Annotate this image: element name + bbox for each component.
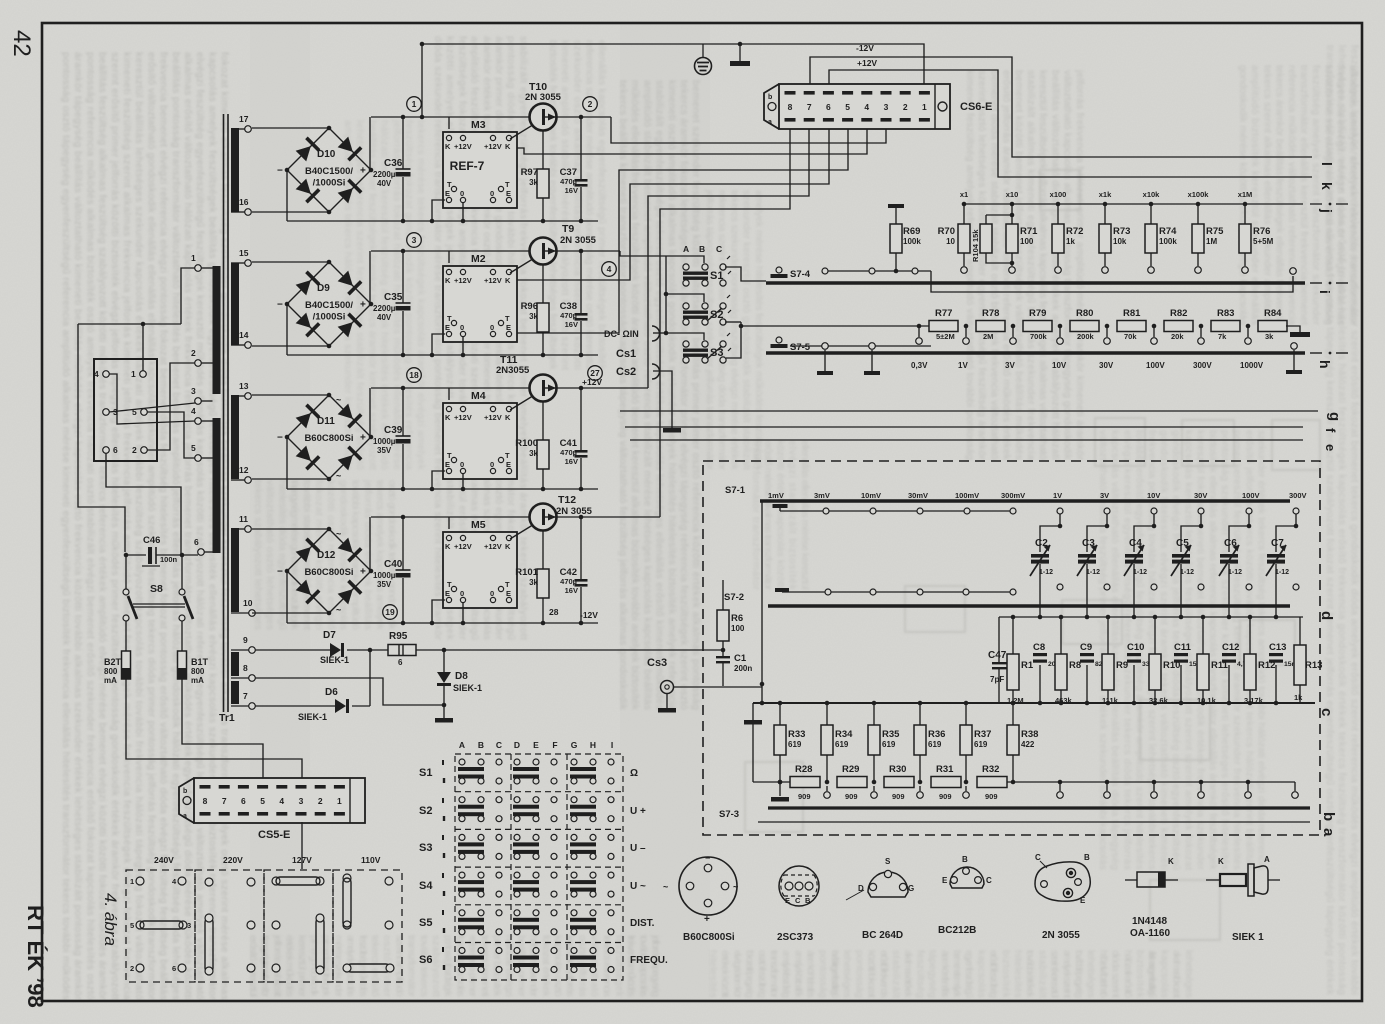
- resistor R100: [515, 438, 549, 469]
- svg-text:l: l: [1319, 162, 1335, 166]
- wire: [779, 508, 781, 511]
- bridge rectifier D11: [277, 393, 373, 482]
- wire: [1153, 326, 1155, 337]
- svg-text:200n: 200n: [734, 664, 752, 673]
- svg-text:K: K: [1218, 857, 1224, 866]
- pinout BC 264D: [846, 857, 914, 941]
- svg-text:5: 5: [260, 796, 265, 806]
- svg-text:100: 100: [731, 624, 745, 633]
- net label d: [1318, 611, 1335, 620]
- svg-text:R77: R77: [935, 308, 952, 319]
- svg-text:k: k: [1319, 182, 1335, 190]
- svg-text:K: K: [445, 142, 451, 151]
- svg-text:I: I: [611, 740, 613, 750]
- voltage regulator module M4: [443, 390, 517, 479]
- svg-text:-12V: -12V: [580, 610, 598, 620]
- svg-text:B: B: [962, 855, 968, 864]
- svg-text:909: 909: [939, 792, 952, 801]
- wire: [556, 116, 611, 118]
- capacitor C1: [716, 653, 752, 673]
- svg-text:T: T: [447, 451, 452, 460]
- svg-text:2: 2: [191, 348, 196, 358]
- wire: [666, 333, 704, 340]
- resistor R32: [977, 764, 1007, 801]
- jack Cs3: [647, 657, 674, 694]
- wire: [722, 580, 724, 610]
- wire: [147, 363, 195, 450]
- resistor R71: [1006, 224, 1038, 253]
- svg-text:~: ~: [336, 529, 341, 539]
- svg-text:0: 0: [460, 460, 464, 469]
- svg-text:470µ: 470µ: [560, 177, 577, 186]
- label 1000V: [1240, 361, 1264, 370]
- svg-text:B: B: [478, 740, 484, 750]
- svg-text:/1000Si: /1000Si: [313, 178, 346, 189]
- svg-text:S7-3: S7-3: [719, 809, 739, 820]
- svg-text:6: 6: [398, 658, 403, 667]
- capacitor C12: [1222, 642, 1251, 668]
- capacitor C37: [560, 167, 588, 195]
- svg-text:S5: S5: [419, 917, 432, 929]
- svg-text:R72: R72: [1066, 226, 1083, 237]
- ground: [888, 204, 904, 208]
- svg-text:13: 13: [239, 381, 249, 391]
- wire: [1087, 514, 1107, 552]
- caption 4. abra: [101, 893, 120, 946]
- svg-text:R29: R29: [842, 764, 859, 775]
- wire: [542, 469, 544, 489]
- wire: [369, 117, 371, 170]
- node 4: [602, 262, 617, 277]
- matrix cell col3 row2: [570, 797, 614, 822]
- wire: [826, 703, 828, 725]
- svg-text:C9: C9: [1080, 642, 1092, 653]
- svg-text:28: 28: [549, 607, 559, 617]
- wire: [999, 616, 1303, 618]
- svg-text:C12: C12: [1222, 642, 1239, 653]
- wire: [287, 354, 598, 356]
- svg-text:T: T: [505, 314, 510, 323]
- svg-text:40V: 40V: [377, 313, 392, 322]
- svg-text:909: 909: [892, 792, 905, 801]
- svg-text:1-12: 1-12: [1275, 569, 1289, 576]
- svg-text:c: c: [1318, 708, 1335, 716]
- net label l: [1319, 162, 1335, 166]
- wire: [829, 70, 1312, 177]
- svg-text:42: 42: [8, 30, 35, 57]
- svg-text:D7: D7: [323, 630, 336, 641]
- node 27: [588, 366, 603, 381]
- svg-text:100mV: 100mV: [955, 491, 979, 500]
- svg-text:+12V: +12V: [582, 377, 602, 387]
- wire: [1247, 326, 1249, 337]
- jack Cs2: [616, 364, 660, 379]
- label S7-3: [719, 809, 739, 820]
- resistor R95: [388, 631, 416, 667]
- label 1V: [958, 361, 968, 370]
- svg-text:4. ábra: 4. ábra: [101, 893, 120, 946]
- ground: [771, 797, 789, 802]
- wire: [1012, 326, 1014, 337]
- svg-text:S7-2: S7-2: [724, 592, 744, 603]
- svg-text:C47: C47: [988, 650, 1007, 661]
- svg-text:10: 10: [243, 598, 253, 608]
- svg-text:15: 15: [239, 248, 249, 258]
- svg-text:19: 19: [385, 607, 395, 617]
- svg-text:SIEK-1: SIEK-1: [320, 655, 349, 665]
- svg-text:mA: mA: [191, 676, 204, 685]
- svg-text:3k: 3k: [529, 312, 538, 321]
- svg-text:1V: 1V: [958, 361, 968, 370]
- svg-text:B40C1500/: B40C1500/: [305, 300, 353, 311]
- label 10mV: [861, 491, 881, 500]
- svg-text:E: E: [533, 740, 539, 750]
- label 30V: [1099, 361, 1114, 370]
- bus rail d: [768, 604, 1290, 608]
- svg-text:100V: 100V: [1242, 491, 1260, 500]
- resistor R37: [960, 725, 991, 755]
- svg-text:B: B: [805, 896, 811, 905]
- svg-text:R6: R6: [731, 613, 743, 624]
- svg-text:S8: S8: [150, 583, 163, 595]
- label ~ top: [336, 529, 341, 539]
- svg-text:E: E: [445, 589, 450, 598]
- svg-text:800: 800: [104, 667, 118, 676]
- terminal pin 9: [243, 635, 255, 653]
- svg-text:G: G: [571, 740, 578, 750]
- svg-text:T: T: [505, 180, 510, 189]
- tap pin 4: [94, 369, 109, 379]
- svg-text:R95: R95: [389, 631, 408, 642]
- resistor R30: [884, 764, 914, 801]
- svg-text:REF-7: REF-7: [450, 159, 485, 173]
- wire: [352, 705, 370, 707]
- fuse B1T: [178, 651, 209, 685]
- svg-text:x100k: x100k: [1188, 190, 1210, 199]
- svg-text:x1: x1: [960, 190, 968, 199]
- svg-text:2: 2: [132, 445, 137, 455]
- svg-text:D: D: [514, 740, 520, 750]
- terminal pin 10: [243, 598, 255, 616]
- wire: [790, 345, 931, 347]
- wire: [620, 251, 666, 256]
- svg-text:−: −: [277, 433, 283, 444]
- wire: [286, 170, 288, 221]
- wire: [985, 215, 987, 224]
- wire: [1106, 326, 1108, 337]
- svg-text:−: −: [277, 567, 283, 578]
- wire: [402, 444, 404, 489]
- svg-text:3k: 3k: [529, 578, 538, 587]
- net label i: [1317, 290, 1333, 294]
- terminal pin 8: [243, 663, 255, 681]
- switch contact S7-5: [771, 337, 811, 353]
- wire: [1150, 253, 1152, 266]
- bus rail S7-1: [760, 499, 1290, 503]
- wire: [286, 304, 288, 355]
- svg-text:E: E: [506, 189, 511, 198]
- svg-text:10V: 10V: [1052, 361, 1067, 370]
- matrix cell col1 row1: [458, 759, 502, 784]
- svg-text:C: C: [496, 740, 502, 750]
- svg-text:/1000Si: /1000Si: [313, 312, 346, 323]
- wire: [462, 203, 464, 221]
- svg-text:R84: R84: [1264, 308, 1282, 319]
- svg-text:e: e: [1323, 444, 1338, 451]
- svg-text:+12V: +12V: [484, 142, 502, 151]
- svg-text:0: 0: [460, 189, 464, 198]
- svg-text:5+5M: 5+5M: [1253, 237, 1274, 246]
- svg-text:K: K: [445, 276, 451, 285]
- svg-text:110V: 110V: [361, 855, 381, 865]
- resistor R69: [890, 224, 921, 253]
- svg-text:R28: R28: [795, 764, 812, 775]
- matrix row S5: [419, 910, 655, 933]
- wire: [1294, 782, 1296, 791]
- svg-text:b: b: [183, 788, 187, 795]
- wire: [556, 516, 660, 518]
- svg-text:x10: x10: [1006, 190, 1019, 199]
- resistor R81: [1117, 308, 1146, 341]
- wire: [252, 478, 329, 480]
- wire: [1104, 253, 1106, 266]
- tap 220V pins: [205, 878, 255, 975]
- matrix cell col3 row3: [570, 834, 614, 859]
- switch S3: [683, 333, 731, 363]
- wire: [542, 332, 544, 355]
- svg-text:R71: R71: [1020, 226, 1038, 237]
- wire: [231, 649, 249, 651]
- wire: [666, 694, 668, 708]
- svg-text:R13: R13: [1305, 660, 1322, 671]
- svg-text:R38: R38: [1021, 729, 1038, 740]
- resistor R79: [1023, 308, 1052, 341]
- wire: [1202, 617, 1204, 654]
- resistor R35: [868, 725, 900, 755]
- tap 110V pins: [343, 874, 394, 972]
- primary pin 4: [191, 406, 201, 424]
- pinout B60C800Si: [663, 853, 738, 943]
- label ~ bottom: [336, 605, 341, 615]
- svg-text:1000µ: 1000µ: [373, 437, 396, 446]
- ground: [864, 371, 880, 375]
- resistor R73: [1099, 224, 1130, 253]
- svg-text:C7: C7: [1271, 538, 1284, 549]
- svg-text:~: ~: [336, 605, 341, 615]
- wire: [580, 117, 582, 179]
- wire: [556, 250, 620, 252]
- svg-text:R8: R8: [1069, 660, 1081, 671]
- svg-text:d: d: [1318, 611, 1335, 620]
- svg-text:g: g: [1326, 412, 1343, 421]
- wire: [421, 44, 423, 117]
- label 0,3V: [911, 361, 928, 370]
- primary pin 2: [191, 348, 201, 366]
- wire: [1060, 690, 1062, 703]
- matrix cell col2 row2: [513, 797, 557, 822]
- svg-text:~: ~: [733, 882, 738, 892]
- switch contact S7-4: [771, 267, 811, 280]
- svg-text:100k: 100k: [903, 237, 921, 246]
- wire: [252, 394, 329, 396]
- svg-text:100: 100: [1020, 237, 1034, 246]
- trimmer capacitor C5: [1171, 538, 1194, 576]
- tap pin 5: [132, 407, 147, 417]
- svg-text:B2T: B2T: [104, 657, 122, 667]
- svg-text:10: 10: [946, 237, 955, 246]
- wire: [252, 612, 329, 614]
- wire: [287, 220, 598, 222]
- wire: [653, 332, 666, 334]
- svg-text:100k: 100k: [1159, 237, 1177, 246]
- svg-text:4: 4: [191, 406, 196, 416]
- wire: [78, 324, 125, 552]
- resistor R9: [1102, 654, 1128, 705]
- svg-text:1-12: 1-12: [1228, 569, 1242, 576]
- svg-text:619: 619: [928, 740, 942, 749]
- svg-text:1: 1: [337, 796, 342, 806]
- svg-text:7: 7: [243, 691, 248, 701]
- trimmer capacitor C4: [1124, 538, 1147, 576]
- svg-text:M2: M2: [471, 253, 486, 265]
- svg-text:Cs3: Cs3: [647, 657, 667, 669]
- wire: [1154, 690, 1156, 703]
- resistor R82: [1164, 308, 1193, 341]
- wire: [653, 371, 672, 428]
- net label f: [1323, 428, 1338, 433]
- transformer secondary winding bar 2: [231, 263, 239, 345]
- net g: [620, 410, 1318, 412]
- wire: [918, 326, 920, 337]
- label T12: [556, 494, 593, 517]
- wire: [965, 755, 967, 782]
- resistor R11: [1197, 654, 1229, 705]
- transistor T9: [530, 238, 557, 265]
- svg-text:619: 619: [835, 740, 849, 749]
- primary pin 6: [194, 537, 204, 555]
- svg-text:BC 264D: BC 264D: [862, 930, 903, 941]
- label 3V: [1005, 361, 1015, 370]
- wire: [1039, 665, 1041, 703]
- matrix row S1: [419, 760, 638, 783]
- wire: [919, 703, 921, 725]
- wire: [402, 251, 404, 303]
- bridge rectifier D9: [277, 260, 373, 349]
- svg-text:909: 909: [845, 792, 858, 801]
- trimmer capacitor C6: [1219, 538, 1242, 576]
- pinout SIEK 1: [1206, 855, 1280, 943]
- svg-text:DC- ΩIN: DC- ΩIN: [604, 329, 639, 339]
- svg-text:K: K: [505, 413, 511, 422]
- svg-text:U –: U –: [630, 843, 646, 854]
- svg-text:1k: 1k: [1294, 693, 1303, 702]
- wire: [106, 453, 181, 555]
- label -12V rail4: [580, 610, 598, 620]
- wire: [1012, 755, 1014, 782]
- wire: [1247, 782, 1249, 791]
- svg-text:G: G: [908, 884, 914, 893]
- svg-text:8: 8: [788, 102, 793, 112]
- voltage tap panel 220V: [195, 855, 264, 982]
- svg-text:300mV: 300mV: [1001, 491, 1025, 500]
- svg-text:R100: R100: [515, 438, 538, 449]
- node 2: [583, 97, 598, 112]
- svg-text:A: A: [683, 244, 689, 254]
- matrix row S2: [419, 798, 646, 821]
- wire: [181, 268, 195, 324]
- wire: [201, 420, 212, 422]
- svg-text:b: b: [1320, 812, 1337, 821]
- svg-text:+: +: [704, 914, 710, 925]
- wire: [826, 755, 828, 782]
- net label h: [1317, 360, 1333, 369]
- label 300V: [1193, 361, 1212, 370]
- capacitor C39: [373, 425, 411, 455]
- capacitor C46: [142, 535, 178, 566]
- svg-text:B60C800Si: B60C800Si: [304, 567, 353, 578]
- wire: [448, 388, 450, 400]
- svg-text:R83: R83: [1217, 308, 1234, 319]
- wire: [402, 117, 404, 169]
- wire: [432, 471, 445, 489]
- svg-text:12: 12: [239, 465, 249, 475]
- svg-text:4: 4: [864, 102, 869, 112]
- svg-text:100n: 100n: [160, 555, 178, 564]
- svg-text:1V: 1V: [1053, 491, 1062, 500]
- resistor R33: [774, 725, 805, 755]
- svg-text:4: 4: [94, 369, 99, 379]
- wire: [402, 517, 404, 570]
- bridge rectifier D12: [277, 527, 373, 616]
- svg-text:K: K: [1168, 857, 1174, 866]
- wire: [1293, 350, 1295, 370]
- svg-text:CS6-E: CS6-E: [960, 101, 992, 113]
- trimmer capacitor C3: [1077, 538, 1100, 576]
- svg-text:2N 3055: 2N 3055: [556, 506, 593, 517]
- svg-text:R75: R75: [1206, 226, 1224, 237]
- wire: [580, 458, 582, 489]
- svg-text:R9: R9: [1116, 660, 1128, 671]
- label S7-2: [724, 592, 744, 603]
- matrix column labels: [459, 740, 613, 750]
- resistor R38: [1007, 725, 1038, 755]
- svg-text:a: a: [183, 813, 187, 820]
- svg-text:220V: 220V: [223, 855, 243, 865]
- svg-text:3: 3: [412, 235, 417, 245]
- label 3mV: [814, 491, 830, 500]
- svg-text:+12V: +12V: [484, 542, 502, 551]
- svg-text:−: −: [277, 300, 283, 311]
- svg-text:619: 619: [974, 740, 988, 749]
- svg-text:7pF: 7pF: [990, 675, 1004, 684]
- svg-text:3k: 3k: [529, 178, 538, 187]
- wire: [780, 510, 1010, 512]
- transformer secondary winding bar 4: [231, 528, 239, 612]
- svg-text:20k: 20k: [1171, 332, 1184, 341]
- wire: [371, 116, 530, 118]
- wire: [666, 256, 704, 263]
- diode D7: [320, 630, 349, 665]
- wire: [1153, 782, 1155, 791]
- wire: [580, 321, 582, 355]
- svg-text:D8: D8: [455, 671, 468, 682]
- svg-text:1000µ: 1000µ: [373, 571, 396, 580]
- matrix cell col2 row6: [513, 948, 557, 973]
- wire: [1299, 617, 1301, 645]
- wire: [125, 621, 127, 651]
- svg-text:18: 18: [409, 370, 419, 380]
- svg-text:17: 17: [239, 114, 249, 124]
